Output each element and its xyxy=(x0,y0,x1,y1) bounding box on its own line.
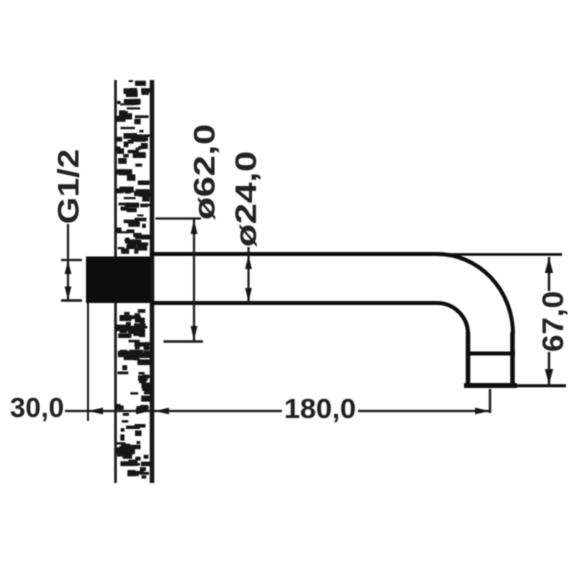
arrow dimG bottom xyxy=(65,287,72,301)
tube top line xyxy=(150,252,437,256)
dim G1/2: top tick xyxy=(61,259,82,261)
spout wall flange (black) xyxy=(86,257,150,304)
arrow dim62 bottom xyxy=(191,326,198,341)
wall left edge xyxy=(114,80,117,483)
wall right edge xyxy=(150,80,155,483)
dim o62: vertical line xyxy=(193,218,195,341)
arrow dim67 top xyxy=(545,258,553,274)
outlet right edge xyxy=(510,332,515,386)
tube bottom line xyxy=(152,301,437,305)
svg-text:G1/2: G1/2 xyxy=(53,149,86,224)
elbow inner arc xyxy=(437,303,468,334)
svg-text:30,0: 30,0 xyxy=(10,392,64,423)
arrow dim30 left xyxy=(88,408,103,415)
arrow dim24 bottom xyxy=(245,288,252,302)
bottom extension line to 67-dim xyxy=(517,384,566,387)
arrow dim180 left xyxy=(155,408,169,415)
main dimension line y=411 xyxy=(65,410,489,412)
arrow dim180 right xyxy=(475,408,490,415)
svg-text:67,0: 67,0 xyxy=(537,291,568,352)
svg-text:ø62,0: ø62,0 xyxy=(189,124,222,220)
aerator line xyxy=(466,352,515,356)
dim 30: left extension line xyxy=(87,303,89,421)
dim G1/2: bottom tick xyxy=(61,299,82,301)
dim o62: bottom tick xyxy=(164,340,204,343)
elbow outer arc xyxy=(437,254,513,334)
arrow dim62 top xyxy=(191,220,198,235)
dim o24: vertical line xyxy=(247,247,249,303)
dim o62: top tick xyxy=(156,217,202,219)
outlet bottom line xyxy=(464,383,517,388)
tube top extension line to 67-dim xyxy=(437,253,562,256)
dim G1/2: leader line xyxy=(67,224,69,300)
arrow dim30 right xyxy=(136,408,150,415)
arrow dimG top xyxy=(65,261,72,275)
dim 67: vertical dimension line segments xyxy=(548,257,550,385)
arrow dim67 bottom xyxy=(545,369,553,385)
dim 180: extension line below outlet xyxy=(489,389,491,413)
arrow dim24 top xyxy=(245,255,252,269)
svg-text:180,0: 180,0 xyxy=(284,393,356,424)
svg-text:ø24,0: ø24,0 xyxy=(230,151,263,247)
wall hatch xyxy=(115,80,151,479)
outlet left edge xyxy=(466,332,471,386)
